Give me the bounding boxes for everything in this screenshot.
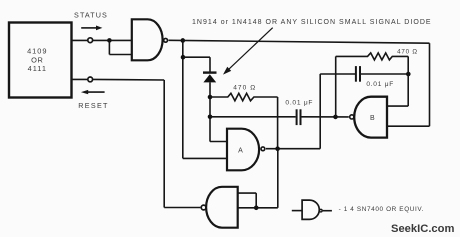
wire to gate1 lower input bbox=[109, 54, 131, 56]
wire node Y to gate B upper input bbox=[387, 105, 408, 107]
capacitor C1 0.01uF plates bbox=[297, 109, 301, 125]
wire junction down bbox=[108, 40, 110, 54]
wire gate A output up bbox=[319, 74, 321, 149]
svg-text:- 1 4 SN7400 OR EQUIV.: - 1 4 SN7400 OR EQUIV. bbox=[339, 206, 425, 213]
wire G1 output vertical down to gate A bbox=[182, 40, 184, 158]
wire node X to capacitor C1 bbox=[210, 116, 296, 118]
wire to gate A lower input bbox=[183, 157, 227, 159]
wire diode anode down bbox=[209, 82, 211, 141]
svg-text:4109: 4109 bbox=[27, 47, 47, 56]
wire C2 to node Y bbox=[361, 73, 408, 75]
NAND gate B (mirrored) bbox=[354, 97, 387, 138]
U1 label 4109 OR 4111 bbox=[27, 47, 47, 74]
wire to gate B lower input bbox=[387, 125, 430, 127]
wire to gate A upper input bbox=[210, 141, 227, 143]
svg-text:470 Ω: 470 Ω bbox=[233, 85, 256, 92]
G4 output bubble bbox=[201, 205, 206, 210]
wire R1 right lead down to gate A output bbox=[277, 97, 279, 149]
wire G4 output to reset riser bbox=[164, 207, 200, 209]
legend gate 1/4 SN7400 bbox=[292, 200, 332, 219]
wire gate A output bbox=[266, 148, 320, 150]
capacitor C2 0.01uF plates bbox=[356, 66, 360, 82]
wire gate A output down to gate G4 bbox=[277, 149, 279, 208]
svg-text:SeekIC.com: SeekIC.com bbox=[391, 223, 454, 235]
gate A output bubble bbox=[261, 147, 265, 151]
G1 output bubble bbox=[164, 38, 168, 42]
diode D1 cathode bar bbox=[203, 71, 217, 73]
svg-text:1N914 or 1N4148 OR ANY SILICO: 1N914 or 1N4148 OR ANY SILICON SMALL SIG… bbox=[192, 19, 432, 26]
wire diode branch horizontal bbox=[183, 56, 210, 58]
svg-text:4111: 4111 bbox=[28, 64, 47, 73]
wire reset riser vertical bbox=[163, 80, 165, 208]
junction node X cap wire tap bbox=[208, 115, 213, 120]
wire to G4 lower input bbox=[238, 207, 257, 209]
svg-text:B: B bbox=[370, 115, 375, 122]
wire G4 input node up bbox=[255, 193, 257, 208]
junction diode branch bbox=[181, 55, 186, 60]
wire to G4 upper input bbox=[238, 192, 257, 194]
gate B output bubble bbox=[350, 115, 354, 119]
IC U1 4109/4111 box bbox=[9, 23, 72, 98]
wire gate A output to capacitor C2 bbox=[320, 73, 355, 75]
svg-text:RESET: RESET bbox=[78, 101, 108, 110]
STATUS direction arrow bbox=[81, 26, 102, 31]
NAND gate G4 (reset inverter, mirrored) bbox=[206, 187, 238, 228]
junction status input node bbox=[107, 38, 112, 43]
junction G4 input node bbox=[254, 206, 259, 211]
RESET direction arrow bbox=[81, 90, 105, 94]
terminal circle RESET bbox=[88, 77, 93, 82]
svg-text:A: A bbox=[238, 148, 243, 155]
wire U1 status pin stub bbox=[72, 39, 88, 41]
wire R2 left lead down to gate B output node bbox=[335, 56, 337, 117]
terminal circle STATUS bbox=[88, 38, 93, 43]
junction gate B output node bbox=[333, 115, 338, 120]
wire G1 output long run to right bbox=[169, 40, 430, 43]
wire diode anode lead bbox=[209, 57, 211, 72]
wire status to gate1 input bbox=[93, 39, 131, 41]
wire reset to terminal bbox=[93, 78, 164, 81]
svg-text:470 Ω: 470 Ω bbox=[397, 48, 418, 55]
svg-text:0.01 μF: 0.01 μF bbox=[285, 99, 313, 106]
resistor R2 470 ohm bbox=[336, 53, 409, 60]
NAND gate G1 (status inverter) bbox=[132, 19, 163, 60]
wire C1 to gate B output node bbox=[302, 116, 349, 118]
wire right edge vertical down bbox=[429, 43, 431, 126]
svg-text:STATUS: STATUS bbox=[74, 11, 108, 20]
annotation leader arrow to D1 bbox=[223, 28, 273, 75]
junction G1 output node bbox=[181, 38, 186, 43]
junction node Y bbox=[406, 72, 411, 77]
svg-text:0.01 μF: 0.01 μF bbox=[366, 81, 394, 88]
diode D1 1N914 triangle bbox=[203, 74, 216, 82]
wire node Y down bbox=[407, 56, 409, 106]
junction gate A output node bbox=[275, 146, 280, 151]
junction node X resistor tap bbox=[208, 95, 213, 100]
wire to gate G4 input node bbox=[256, 207, 278, 209]
wire U1 reset pin stub bbox=[72, 78, 88, 80]
resistor R1 470 ohm bbox=[210, 93, 278, 101]
NAND gate A bbox=[227, 129, 259, 171]
